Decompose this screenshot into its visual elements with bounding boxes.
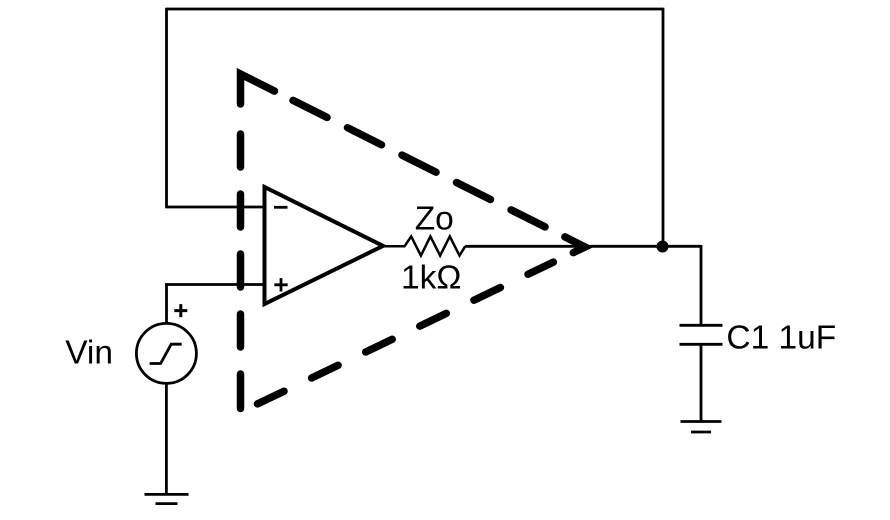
node: output junction dot xyxy=(657,241,669,253)
dashed op-amp model boundary xyxy=(241,74,586,409)
svg-text:1kΩ: 1kΩ xyxy=(401,260,461,297)
ground (Vin) xyxy=(145,494,189,503)
source Vin xyxy=(136,323,196,383)
polarity plus (Vin) xyxy=(174,304,187,317)
op-amp U1 xyxy=(265,187,384,304)
wire: capacitor top lead xyxy=(700,245,703,325)
svg-text:Vin: Vin xyxy=(65,334,113,371)
wire: capacitor bottom lead xyxy=(700,344,703,421)
op-amp noninverting input marker (plus) xyxy=(274,278,287,291)
label 1kΩ xyxy=(401,260,461,297)
wire: feedback left vertical xyxy=(165,8,168,207)
wire: top feedback horizontal xyxy=(167,8,664,11)
svg-text:Zo: Zo xyxy=(415,201,454,238)
capacitor C1 xyxy=(680,325,723,344)
resistor Zo xyxy=(384,236,466,255)
label Zo xyxy=(415,201,454,238)
ground (C1) xyxy=(681,422,722,433)
label Vin xyxy=(65,334,113,371)
wire: inverting input xyxy=(165,206,266,209)
op-amp inverting input marker (minus) xyxy=(274,206,288,209)
wire: feedback right vertical xyxy=(662,8,665,247)
wire: noninverting input xyxy=(165,283,266,286)
wire: output to capacitor corner xyxy=(465,245,701,248)
wire: Vin top lead xyxy=(165,283,168,324)
svg-text:C1 1uF: C1 1uF xyxy=(726,320,836,357)
label C1 1uF xyxy=(726,320,836,357)
wire: Vin to ground xyxy=(165,383,168,494)
